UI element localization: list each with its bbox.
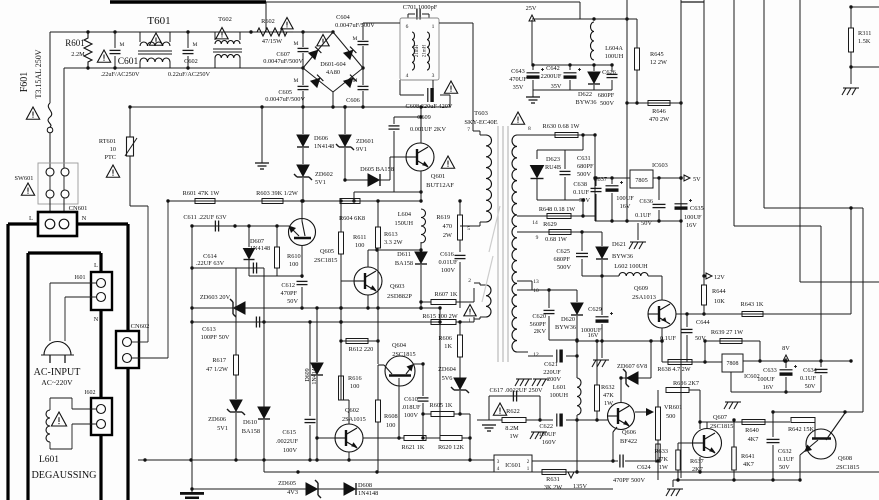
svg-text:100: 100 [386,422,395,429]
svg-text:16V: 16V [620,203,631,210]
svg-text:C626: C626 [602,69,616,76]
svg-text:R646: R646 [652,108,666,115]
svg-text:R611: R611 [353,234,366,241]
svg-text:1N4148: 1N4148 [358,490,378,497]
svg-text:100V: 100V [404,412,418,419]
svg-text:680PF: 680PF [577,163,594,170]
svg-text:1W: 1W [659,464,668,471]
svg-text:C612: C612 [281,282,295,289]
svg-text:1W: 1W [509,433,518,440]
svg-text:C631: C631 [577,155,591,162]
svg-text:35V: 35V [551,83,562,90]
svg-text:D623: D623 [546,156,560,163]
svg-text:D606: D606 [314,135,328,142]
svg-text:0.1UF: 0.1UF [573,189,589,196]
svg-text:500: 500 [666,413,675,420]
svg-text:R622: R622 [506,408,520,415]
svg-text:0.1UF: 0.1UF [800,375,816,382]
svg-text:16V: 16V [763,384,774,391]
svg-text:16V: 16V [686,222,697,229]
svg-text:R648 0.18 1W: R648 0.18 1W [539,206,575,213]
svg-text:R637: R637 [690,458,704,465]
svg-text:DEGAUSSING: DEGAUSSING [31,470,97,481]
svg-text:C620: C620 [532,313,546,320]
svg-text:ZD606: ZD606 [208,416,226,423]
svg-text:L604: L604 [398,211,412,218]
svg-text:0.0047uF/500V: 0.0047uF/500V [263,58,303,65]
svg-text:47/15W: 47/15W [262,38,282,45]
svg-text:1N4148: 1N4148 [314,143,334,150]
svg-text:C604: C604 [336,14,350,21]
svg-text:1K: 1K [444,343,452,350]
svg-text:0.68 1W: 0.68 1W [545,236,567,243]
svg-text:2.2M: 2.2M [71,51,85,58]
svg-text:10K: 10K [714,298,725,305]
svg-text:5V6: 5V6 [442,375,453,382]
svg-text:2SC1815: 2SC1815 [392,351,415,358]
svg-text:5V: 5V [693,176,701,183]
svg-text:BYW36: BYW36 [576,99,597,106]
svg-text:AC~220V: AC~220V [41,378,73,387]
svg-text:680PF: 680PF [598,92,615,99]
svg-text:R608: R608 [384,413,398,420]
svg-text:50V: 50V [287,298,298,305]
svg-text:R603 39K 1/2W: R603 39K 1/2W [256,190,298,197]
svg-text:5V1: 5V1 [217,425,228,432]
svg-text:14: 14 [532,220,538,226]
svg-text:21mH: 21mH [415,44,420,57]
svg-text:C602: C602 [184,58,198,65]
svg-text:470 2W: 470 2W [649,116,669,123]
svg-text:CN602: CN602 [131,323,150,330]
svg-text:R631: R631 [546,476,560,483]
svg-text:2SC1815: 2SC1815 [710,423,733,430]
svg-text:M: M [353,78,358,84]
svg-text:2SD882P: 2SD882P [387,293,412,300]
svg-text:C613: C613 [202,326,216,333]
svg-text:1N4148: 1N4148 [250,245,270,252]
svg-text:0.001UF 2KV: 0.001UF 2KV [410,126,446,133]
svg-text:16V: 16V [588,332,599,339]
svg-text:C633: C633 [763,367,777,374]
svg-text:7: 7 [467,127,470,133]
svg-text:220UF: 220UF [543,369,561,376]
svg-text:3: 3 [432,73,435,79]
svg-text:100V: 100V [441,267,455,274]
svg-text:.22UF 63V: .22UF 63V [196,260,225,267]
svg-text:C644: C644 [696,319,710,326]
svg-text:12 2W: 12 2W [650,59,667,66]
svg-text:500V: 500V [577,171,591,178]
svg-text:1: 1 [468,318,471,324]
svg-text:RT601: RT601 [99,138,116,145]
svg-text:1.5K: 1.5K [858,38,871,45]
svg-text:D608: D608 [358,482,372,489]
svg-text:13: 13 [533,279,539,285]
svg-text:D605 BA158: D605 BA158 [360,166,394,173]
svg-text:RU4B: RU4B [545,164,561,171]
svg-text:6: 6 [406,24,409,30]
svg-text:F601: F601 [19,72,30,93]
svg-text:D601-604: D601-604 [320,61,346,68]
svg-text:0.0047uF/500V: 0.0047uF/500V [265,96,305,103]
svg-text:100: 100 [350,383,359,390]
svg-text:4A80: 4A80 [326,69,340,76]
svg-text:50V: 50V [779,464,790,471]
svg-text:D622: D622 [578,91,592,98]
svg-text:100UF: 100UF [616,195,634,202]
svg-text:50V: 50V [579,197,590,204]
svg-text:R643 1K: R643 1K [741,301,764,308]
svg-text:9V1: 9V1 [356,146,367,153]
svg-text:2SA1013: 2SA1013 [632,294,656,301]
svg-text:R601 47K 1W: R601 47K 1W [183,190,220,197]
svg-text:100: 100 [289,261,298,268]
svg-text:R638 4.7 2W: R638 4.7 2W [657,366,690,373]
svg-text:T602: T602 [218,16,232,23]
svg-text:4K7: 4K7 [748,436,759,443]
svg-text:C625: C625 [556,248,570,255]
svg-text:L: L [29,215,33,222]
svg-text:10: 10 [533,288,539,294]
svg-text:Q609: Q609 [634,285,648,292]
svg-text:25V: 25V [526,5,537,12]
svg-text:470: 470 [443,223,452,230]
svg-text:R640: R640 [745,427,759,434]
svg-text:47 1/2W: 47 1/2W [206,366,228,373]
svg-text:ZD604: ZD604 [438,366,457,373]
svg-text:Q602: Q602 [345,407,359,414]
svg-text:T3.15AL 250V: T3.15AL 250V [34,49,43,98]
svg-text:.22uF/AC250V: .22uF/AC250V [100,71,139,78]
svg-text:D610: D610 [243,419,257,426]
svg-text:BA158: BA158 [395,260,413,267]
svg-text:2SA1015: 2SA1015 [342,416,366,423]
svg-text:135V: 135V [573,483,587,490]
svg-text:0.22uF/AC250V: 0.22uF/AC250V [168,71,211,78]
svg-text:3.3 2W: 3.3 2W [384,239,403,246]
svg-text:500V: 500V [600,100,614,107]
svg-text:150UH: 150UH [394,220,413,227]
svg-text:R610: R610 [287,253,301,260]
svg-text:C610: C610 [404,396,418,403]
svg-text:C606: C606 [346,97,360,104]
svg-text:Q604: Q604 [392,342,407,349]
svg-text:R311: R311 [858,30,871,37]
svg-text:PTC: PTC [104,154,116,161]
svg-text:Q603: Q603 [390,283,404,290]
svg-text:R616: R616 [348,375,362,382]
svg-text:R612 220: R612 220 [349,346,374,353]
svg-text:BUT12AF: BUT12AF [426,182,454,189]
svg-text:ZD601: ZD601 [356,138,374,145]
svg-text:C607: C607 [276,51,290,58]
svg-text:VR601: VR601 [664,404,682,411]
svg-text:L601: L601 [39,455,59,465]
svg-text:R617: R617 [212,357,226,364]
svg-text:M: M [353,36,358,42]
svg-text:470PF: 470PF [281,290,298,297]
svg-text:R642 15K: R642 15K [788,426,815,433]
svg-text:R633: R633 [654,448,668,455]
svg-text:T601: T601 [147,15,170,27]
svg-text:C632: C632 [778,448,792,455]
svg-text:AC-INPUT: AC-INPUT [34,367,81,378]
svg-text:R619: R619 [436,214,450,221]
svg-text:C637: C637 [593,176,607,183]
svg-text:ZD607 6V8: ZD607 6V8 [617,363,647,370]
svg-text:C614: C614 [203,253,217,260]
svg-text:C611 .22UF 63V: C611 .22UF 63V [183,214,227,221]
svg-text:21mH: 21mH [423,44,428,57]
svg-text:100UF: 100UF [539,431,557,438]
svg-text:4: 4 [406,73,409,79]
svg-text:I602: I602 [85,390,96,396]
svg-text:2KV: 2KV [534,328,547,335]
svg-text:C634: C634 [803,367,817,374]
svg-text:Q601: Q601 [431,173,445,180]
svg-text:100UF: 100UF [684,214,702,221]
svg-text:100UH: 100UH [605,53,624,60]
svg-text:C642: C642 [546,65,560,72]
svg-text:8: 8 [528,126,531,132]
svg-text:12: 12 [533,352,539,358]
svg-text:BA158: BA158 [242,428,260,435]
svg-text:Q607: Q607 [713,414,727,421]
svg-text:47K: 47K [603,392,614,399]
svg-text:3K 2W: 3K 2W [544,484,562,491]
svg-text:50V: 50V [805,383,816,390]
svg-text:0.1UF: 0.1UF [778,456,794,463]
svg-text:R601: R601 [65,38,85,48]
svg-text:10: 10 [110,146,116,153]
svg-text:R629: R629 [543,221,557,228]
svg-text:D607: D607 [250,238,264,245]
svg-text:470UF: 470UF [509,76,527,83]
svg-text:0.1UF: 0.1UF [635,212,651,219]
svg-text:1: 1 [432,24,435,30]
svg-text:560PF: 560PF [530,321,547,328]
svg-text:R605 1K: R605 1K [430,402,453,409]
svg-text:R604 6K8: R604 6K8 [339,215,365,222]
svg-text:L604A: L604A [605,45,623,52]
svg-text:R606: R606 [438,335,452,342]
svg-text:.018UF: .018UF [401,404,421,411]
svg-text:R602: R602 [261,18,275,25]
svg-text:L602 100UH: L602 100UH [614,263,648,270]
svg-text:D611: D611 [397,251,411,258]
svg-text:2: 2 [468,278,471,284]
svg-text:100UH: 100UH [549,392,568,399]
svg-text:100: 100 [355,242,364,249]
svg-text:C621: C621 [544,361,558,368]
svg-text:L: L [94,262,98,269]
svg-text:4K7: 4K7 [743,461,754,468]
svg-text:M: M [294,78,299,84]
svg-text:SKY-EC40E: SKY-EC40E [464,119,497,126]
svg-text:4V3: 4V3 [287,489,298,496]
svg-text:9: 9 [536,235,539,241]
svg-text:Q605: Q605 [320,248,334,255]
svg-text:R630 0.68 1W: R630 0.68 1W [543,123,580,130]
svg-text:Q608: Q608 [838,455,852,462]
svg-text:100UF: 100UF [757,376,775,383]
svg-text:C636: C636 [639,198,653,205]
svg-text:C638: C638 [573,181,587,188]
svg-text:680PF: 680PF [554,256,571,263]
svg-text:7805: 7805 [635,177,648,184]
svg-text:C616: C616 [440,251,454,258]
svg-text:2200UF: 2200UF [541,73,562,80]
svg-text:M: M [193,42,198,48]
svg-text:2SC1815: 2SC1815 [314,257,337,264]
svg-text:5V1: 5V1 [315,179,326,186]
svg-text:R632: R632 [601,384,615,391]
svg-text:R641: R641 [741,453,755,460]
svg-text:T603: T603 [474,110,488,117]
svg-text:ZD603 20V: ZD603 20V [200,294,231,301]
svg-text:8V: 8V [782,345,790,352]
svg-text:N: N [82,215,87,222]
svg-text:0.01UF: 0.01UF [438,259,458,266]
svg-text:2SC1815: 2SC1815 [836,464,859,471]
svg-text:D620: D620 [561,316,575,323]
svg-text:N: N [94,316,99,323]
svg-text:R645: R645 [650,51,664,58]
svg-text:C629: C629 [588,306,602,313]
svg-text:IC603: IC603 [652,162,668,169]
svg-text:C635: C635 [690,205,704,212]
svg-text:12V: 12V [714,274,725,281]
svg-text:1N4148: 1N4148 [312,365,318,384]
svg-text:ZD605: ZD605 [278,480,296,487]
svg-text:500V: 500V [557,264,571,271]
svg-text:8.2M: 8.2M [505,425,519,432]
svg-text:L601: L601 [553,384,566,391]
svg-text:100V: 100V [283,447,297,454]
svg-text:Q606: Q606 [622,429,636,436]
svg-text:M: M [294,41,299,47]
svg-text:BYW36: BYW36 [612,253,633,260]
svg-text:BF422: BF422 [620,438,637,445]
svg-text:C643: C643 [511,68,525,75]
svg-text:SW601: SW601 [15,175,34,182]
svg-text:35V: 35V [513,84,524,91]
svg-text:BYW36: BYW36 [555,324,576,331]
svg-text:C615: C615 [282,429,296,436]
svg-text:R644: R644 [712,288,726,295]
svg-text:D621: D621 [612,241,626,248]
svg-text:C601: C601 [118,57,139,67]
svg-text:R607 1K: R607 1K [435,291,458,298]
svg-text:C608 220uF 420V: C608 220uF 420V [406,103,453,110]
svg-text:5: 5 [467,226,470,232]
svg-text:470PF 500V: 470PF 500V [613,477,645,484]
svg-text:IC601: IC601 [505,462,521,469]
svg-text:R636 2K7: R636 2K7 [673,380,699,387]
svg-text:R621 1K: R621 1K [402,444,425,451]
svg-text:.0022UF: .0022UF [276,438,299,445]
svg-text:R620 12K: R620 12K [438,444,465,451]
svg-text:C624: C624 [637,464,651,471]
svg-text:C605: C605 [278,89,292,96]
svg-text:7808: 7808 [727,361,739,367]
svg-text:M: M [120,42,125,48]
svg-text:160V: 160V [542,439,556,446]
svg-text:2W: 2W [443,232,452,239]
svg-text:ZD602: ZD602 [315,171,333,178]
svg-text:I601: I601 [75,275,86,281]
svg-text:200V: 200V [547,376,561,383]
svg-text:R639 27 1W: R639 27 1W [711,329,743,336]
svg-text:C622: C622 [539,423,553,430]
svg-text:100PF 50V: 100PF 50V [201,334,230,341]
svg-text:R613: R613 [384,231,398,238]
